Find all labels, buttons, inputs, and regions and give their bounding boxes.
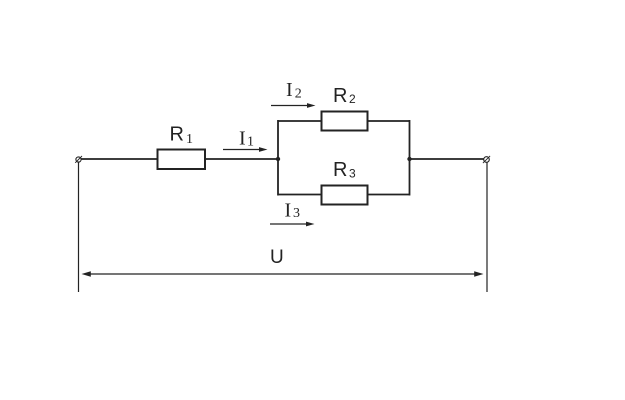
svg-text:1: 1 bbox=[247, 134, 254, 149]
svg-text:3: 3 bbox=[293, 206, 300, 221]
svg-text:I: I bbox=[285, 199, 292, 221]
svg-text:2: 2 bbox=[349, 92, 356, 106]
svg-text:2: 2 bbox=[295, 87, 302, 102]
svg-text:1: 1 bbox=[186, 132, 193, 147]
svg-text:3: 3 bbox=[349, 167, 356, 181]
svg-text:I: I bbox=[239, 128, 246, 150]
svg-text:U: U bbox=[270, 247, 284, 268]
svg-text:R: R bbox=[170, 124, 184, 146]
svg-text:R: R bbox=[333, 85, 347, 107]
svg-text:I: I bbox=[286, 79, 293, 101]
svg-text:R: R bbox=[333, 159, 347, 181]
